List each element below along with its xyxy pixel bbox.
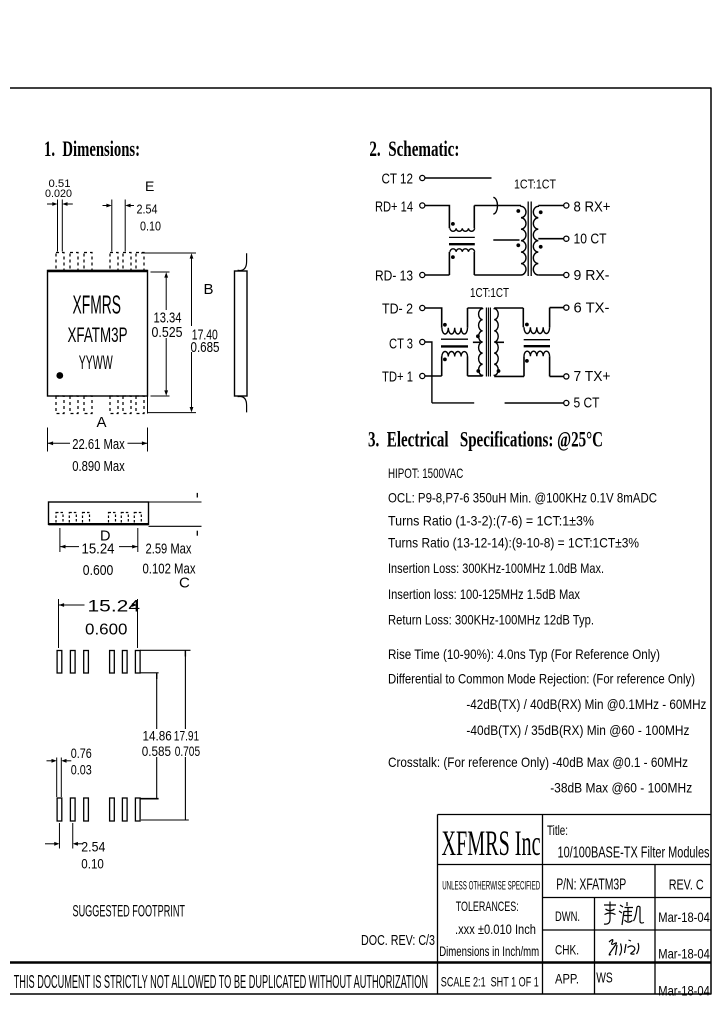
- svg-text:9 RX-: 9 RX-: [574, 267, 610, 284]
- svg-text:0.76: 0.76: [71, 745, 92, 761]
- svg-text:SCALE 2:1 SHT 1 OF 1: SCALE 2:1 SHT 1 OF 1: [441, 974, 539, 990]
- svg-text:0.890 Max: 0.890 Max: [72, 459, 125, 475]
- svg-text:A: A: [97, 414, 107, 431]
- transformer T1 secondary dots: [539, 210, 543, 214]
- svg-text:WS: WS: [596, 970, 613, 987]
- wire pin 13 RD- to choke L1: [425, 252, 449, 275]
- transformer T1 primary center tap stub: [493, 239, 519, 241]
- pin terminal circles right: [564, 203, 569, 406]
- choke L3 top winding: [524, 327, 550, 333]
- svg-text:-38dB Max @60 - 100MHz: -38dB Max @60 - 100MHz: [550, 780, 692, 796]
- svg-text:TD+ 1: TD+ 1: [382, 369, 413, 386]
- svg-text:2.54: 2.54: [81, 839, 105, 855]
- transformer T1 core: [528, 202, 531, 277]
- svg-text:10 CT: 10 CT: [574, 231, 607, 248]
- footprint dimension 17.91/0.705 outer span lines: [140, 650, 191, 820]
- electrical specifications text: [388, 465, 706, 796]
- border frame top line: [10, 87, 711, 89]
- package pin1 index dot: [56, 372, 63, 379]
- svg-text:0.10: 0.10: [81, 856, 104, 872]
- svg-text:0.685: 0.685: [191, 339, 220, 356]
- svg-text:Turns Ratio (13-12-14):(9-10-8: Turns Ratio (13-12-14):(9-10-8) = 1CT:1C…: [388, 535, 639, 551]
- transformer T2 core: [486, 308, 490, 377]
- choke L3 core lines: [524, 340, 550, 347]
- choke L1 top winding: [450, 228, 475, 231]
- schematic pin labels right side: [574, 199, 611, 412]
- svg-text:6 TX-: 6 TX-: [574, 300, 610, 317]
- svg-text:15.24: 15.24: [82, 541, 115, 558]
- svg-text:Mar-18-04: Mar-18-04: [658, 909, 710, 925]
- svg-text:1CT:1CT: 1CT:1CT: [470, 285, 509, 300]
- svg-text:0.10: 0.10: [140, 219, 161, 234]
- choke L2 top winding: [442, 328, 468, 334]
- svg-text:1CT:1CT: 1CT:1CT: [514, 177, 556, 192]
- choke L2 bottom winding dot: [443, 358, 447, 362]
- svg-text:YYWW: YYWW: [79, 353, 113, 374]
- svg-text:3. Electrical Specification: 3. Electrical Specifications: @25°C: [368, 427, 603, 453]
- footprint dimension texts 14.86 17.91 0.585 0.705: [142, 727, 201, 759]
- svg-text:0.585: 0.585: [142, 743, 171, 759]
- wire pin 12 CT stub: [425, 177, 491, 179]
- transformer T2 right winding dot: [497, 369, 501, 373]
- choke L1 top winding dot: [451, 222, 455, 226]
- svg-text:1. Dimensions:: 1. Dimensions:: [44, 136, 140, 161]
- svg-text:RD+ 14: RD+ 14: [375, 199, 413, 216]
- choke L1 bottom winding dot: [451, 255, 455, 259]
- svg-text:XFMRS Inc: XFMRS Inc: [442, 823, 541, 863]
- wire pin 2 TD- to choke L2: [425, 308, 442, 328]
- side view 2 (front) body: [49, 502, 149, 524]
- dimension 0.51/0.020 pin width labels: [45, 178, 72, 200]
- svg-text:Title:: Title:: [547, 822, 568, 838]
- svg-text:CHK.: CHK.: [555, 942, 579, 958]
- svg-text:RD- 13: RD- 13: [375, 268, 413, 285]
- svg-text:15.24: 15.24: [88, 598, 141, 616]
- dimension E/2.54 extension lines and arrows: [103, 200, 135, 252]
- svg-text:HIPOT: 1500VAC: HIPOT: 1500VAC: [388, 465, 463, 481]
- wire choke L3 top to pin 6 TX-: [550, 308, 564, 328]
- footprint dimension 14.86/0.585 inner span lines: [141, 673, 159, 799]
- svg-text:Differential to Common Mode Re: Differential to Common Mode Rejection: (…: [388, 671, 695, 687]
- wire choke L2 bottom right to transformer T2: [468, 357, 483, 376]
- svg-text:DOC. REV: C/3: DOC. REV: C/3: [361, 933, 435, 949]
- crossover hop arc: [493, 197, 497, 214]
- svg-text:CT 12: CT 12: [382, 171, 414, 188]
- svg-text:5 CT: 5 CT: [574, 395, 600, 412]
- wire pin 5 CT stub: [505, 402, 564, 404]
- svg-text:8 RX+: 8 RX+: [574, 199, 611, 216]
- choke L1 core lines: [449, 237, 475, 244]
- svg-text:0.600: 0.600: [83, 562, 114, 579]
- svg-text:2. Schematic:: 2. Schematic:: [369, 136, 459, 161]
- svg-text:0.525: 0.525: [152, 325, 183, 341]
- wire pin 3 CT dangling stub: [425, 342, 474, 403]
- transformer T2 right center tap stub: [496, 341, 504, 343]
- dimension 0.51 extension lines and arrows: [47, 200, 73, 252]
- dimension B 17.40/0.685 overall height: [141, 253, 196, 414]
- border frame right line: [710, 88, 712, 995]
- svg-text:22.61 Max: 22.61 Max: [72, 437, 125, 453]
- package top view body outline: [48, 271, 148, 397]
- wire choke L1 bottom to transformer T1 primary bottom: [474, 252, 521, 275]
- transformer T2 right winding: [494, 308, 498, 376]
- title block tolerances cell text: [439, 879, 540, 960]
- wire transformer T2 bottom to choke L3 bottom: [494, 356, 524, 376]
- footprint dimension 2.54/0.10 pad pitch: [45, 823, 83, 849]
- transformer T1 primary winding: [521, 206, 526, 275]
- pin terminal circles left: [420, 175, 425, 378]
- svg-text:17.91: 17.91: [174, 727, 200, 743]
- choke L2 top winding dot: [443, 323, 447, 327]
- svg-text:TOLERANCES:: TOLERANCES:: [456, 898, 519, 914]
- svg-text:DWN.: DWN.: [555, 908, 580, 924]
- svg-text:0.705: 0.705: [175, 743, 201, 759]
- svg-text:0.600: 0.600: [85, 622, 128, 639]
- svg-text:-42dB(TX) / 40dB(RX) Min @0.1M: -42dB(TX) / 40dB(RX) Min @0.1MHz - 60MHz: [466, 696, 706, 712]
- svg-text:0.020: 0.020: [45, 188, 72, 200]
- border frame bottom line: [10, 993, 711, 995]
- svg-text:THIS DOCUMENT IS STRICTLY NOT: THIS DOCUMENT IS STRICTLY NOT ALLOWED TO…: [14, 972, 428, 992]
- svg-text:-40dB(TX) / 35dB(RX) Min @60 -: -40dB(TX) / 35dB(RX) Min @60 - 100MHz: [466, 722, 689, 738]
- transformer T1 secondary winding: [533, 206, 538, 275]
- svg-text:Crosstalk: (For reference Only: Crosstalk: (For reference Only) -40dB Ma…: [388, 754, 688, 770]
- svg-text:APP.: APP.: [555, 971, 579, 987]
- wire transformer T1 secondary center tap to pin 10 CT: [538, 238, 563, 240]
- svg-text:B: B: [204, 281, 214, 298]
- choke L3 bottom winding dot: [525, 359, 529, 363]
- wire choke L3 bottom to pin 7 TX+: [550, 356, 564, 376]
- svg-text:7 TX+: 7 TX+: [574, 368, 611, 385]
- dimension 2.54/0.10 labels: [137, 202, 162, 234]
- svg-text:REV. C: REV. C: [669, 877, 704, 894]
- wire choke L2 top right to transformer T2: [468, 308, 483, 328]
- svg-text:SUGGESTED FOOTPRINT: SUGGESTED FOOTPRINT: [73, 903, 186, 921]
- transformer T1 primary dots: [516, 209, 520, 213]
- package bottom-side pins (hidden dashed): [56, 396, 144, 414]
- side view 2 pins dashed: [56, 513, 141, 525]
- transformer T2 left center tap stub: [473, 341, 480, 343]
- svg-text:Mar-18-04: Mar-18-04: [658, 946, 710, 962]
- package side profile view: [235, 253, 248, 412]
- svg-text:Insertion loss: 100-125MHz 1.5: Insertion loss: 100-125MHz 1.5dB Max: [388, 586, 580, 602]
- svg-text:C: C: [179, 575, 190, 592]
- dimension C 2.59 Max seating extension lines: [149, 493, 202, 536]
- schematic pin labels left side: [375, 171, 413, 386]
- svg-text:Turns Ratio (1-3-2):(7-6) = 1C: Turns Ratio (1-3-2):(7-6) = 1CT:1±3%: [388, 513, 594, 529]
- svg-text:OCL: P9-8,P7-6 350uH Min. @100: OCL: P9-8,P7-6 350uH Min. @100KHz 0.1V 8…: [388, 490, 657, 506]
- svg-text:.xxx ±0.010 Inch: .xxx ±0.010 Inch: [455, 921, 536, 937]
- choke L2 bottom winding: [442, 352, 468, 357]
- title block CHK signature (hand strokes): [609, 940, 639, 956]
- footprint bottom pad row: [57, 798, 140, 821]
- footprint dimension 15.24/0.600: [59, 599, 138, 648]
- svg-text:Dimensions in Inch/mm: Dimensions in Inch/mm: [439, 943, 539, 959]
- svg-text:Mar-18-04: Mar-18-04: [658, 983, 710, 999]
- title block grid lines: [438, 815, 712, 995]
- svg-text:14.86: 14.86: [143, 727, 172, 743]
- svg-text:Return Loss: 300KHz-100MHz 12d: Return Loss: 300KHz-100MHz 12dB Typ.: [388, 612, 594, 628]
- svg-text:TD- 2: TD- 2: [382, 301, 413, 318]
- svg-text:Rise Time (10-90%): 4.0ns Typ: Rise Time (10-90%): 4.0ns Typ (For Refer…: [388, 646, 660, 662]
- svg-text:E: E: [145, 178, 154, 194]
- footprint dimension 0.76/0.03 pad width: [47, 758, 72, 798]
- svg-text:0.03: 0.03: [71, 762, 92, 778]
- choke L3 bottom winding: [524, 351, 550, 356]
- svg-text:2.54: 2.54: [137, 202, 158, 217]
- wire transformer T1 secondary bottom to pin 9 RX-: [538, 274, 563, 276]
- wire transformer T2 top to choke L3: [494, 308, 523, 327]
- svg-text:CT 3: CT 3: [389, 336, 413, 353]
- transformer T2 left winding dots: [476, 334, 480, 338]
- footprint top pad row: [57, 651, 140, 674]
- wire choke L1 to transformer T1 primary top (with crossover hop): [474, 206, 521, 229]
- svg-text:Insertion Loss: 300KHz-100MHz: Insertion Loss: 300KHz-100MHz 1.0dB Max.: [388, 560, 604, 576]
- package top-side pins (hidden dashed): [56, 253, 144, 271]
- choke L3 top winding dot: [525, 323, 529, 327]
- wire pin 1 TD+ to choke L2 bottom: [425, 357, 442, 377]
- svg-text:XFATM3P: XFATM3P: [68, 323, 128, 347]
- wire pin 14 RD+ to choke L1: [425, 206, 449, 229]
- footer separator thick line: [10, 961, 711, 964]
- title block DWN signature (hand strokes): [604, 902, 644, 926]
- transformer T2 left winding: [479, 308, 483, 376]
- svg-text:UNLESS OTHERWISE SPECIFIED: UNLESS OTHERWISE SPECIFIED: [442, 879, 540, 893]
- svg-text:XFMRS: XFMRS: [73, 292, 122, 320]
- choke L2 core lines: [441, 339, 468, 346]
- svg-text:2.59 Max: 2.59 Max: [146, 541, 192, 558]
- svg-text:10/100BASE-TX Filter Modules: 10/100BASE-TX Filter Modules: [558, 845, 710, 862]
- choke L1 bottom winding: [450, 249, 475, 252]
- wire transformer T1 secondary top to pin 8 RX+: [538, 205, 563, 207]
- svg-text:P/N: XFATM3P: P/N: XFATM3P: [556, 877, 626, 894]
- dimension 13.34/0.525 body height: [151, 272, 170, 396]
